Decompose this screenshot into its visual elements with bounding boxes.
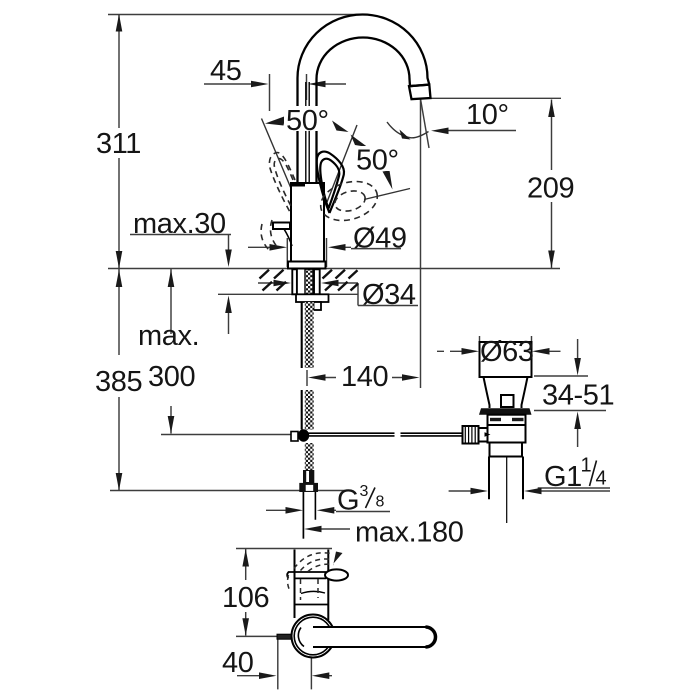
svg-text:209: 209 bbox=[527, 173, 574, 205]
svg-text:311: 311 bbox=[96, 128, 141, 160]
svg-text:4: 4 bbox=[596, 468, 607, 490]
svg-text:10°: 10° bbox=[466, 99, 509, 131]
svg-text:Ø63: Ø63 bbox=[480, 336, 534, 368]
svg-text:8: 8 bbox=[376, 494, 385, 511]
svg-text:G1: G1 bbox=[544, 461, 582, 493]
svg-text:40: 40 bbox=[222, 647, 253, 679]
svg-text:45: 45 bbox=[210, 55, 241, 87]
svg-text:50°: 50° bbox=[356, 145, 399, 177]
svg-text:1: 1 bbox=[581, 455, 592, 477]
svg-text:max.180: max.180 bbox=[355, 517, 463, 549]
svg-text:G: G bbox=[337, 485, 359, 517]
svg-text:385: 385 bbox=[95, 366, 142, 398]
svg-text:300: 300 bbox=[148, 361, 195, 393]
svg-text:max.30: max.30 bbox=[133, 208, 226, 240]
svg-text:Ø49: Ø49 bbox=[353, 223, 407, 255]
svg-text:106: 106 bbox=[222, 582, 269, 614]
svg-text:Ø34: Ø34 bbox=[362, 279, 416, 311]
svg-text:max.: max. bbox=[138, 320, 199, 352]
svg-text:50°: 50° bbox=[286, 105, 329, 137]
svg-text:3: 3 bbox=[360, 483, 369, 500]
svg-text:140: 140 bbox=[341, 361, 388, 393]
svg-text:34-51: 34-51 bbox=[542, 380, 614, 412]
